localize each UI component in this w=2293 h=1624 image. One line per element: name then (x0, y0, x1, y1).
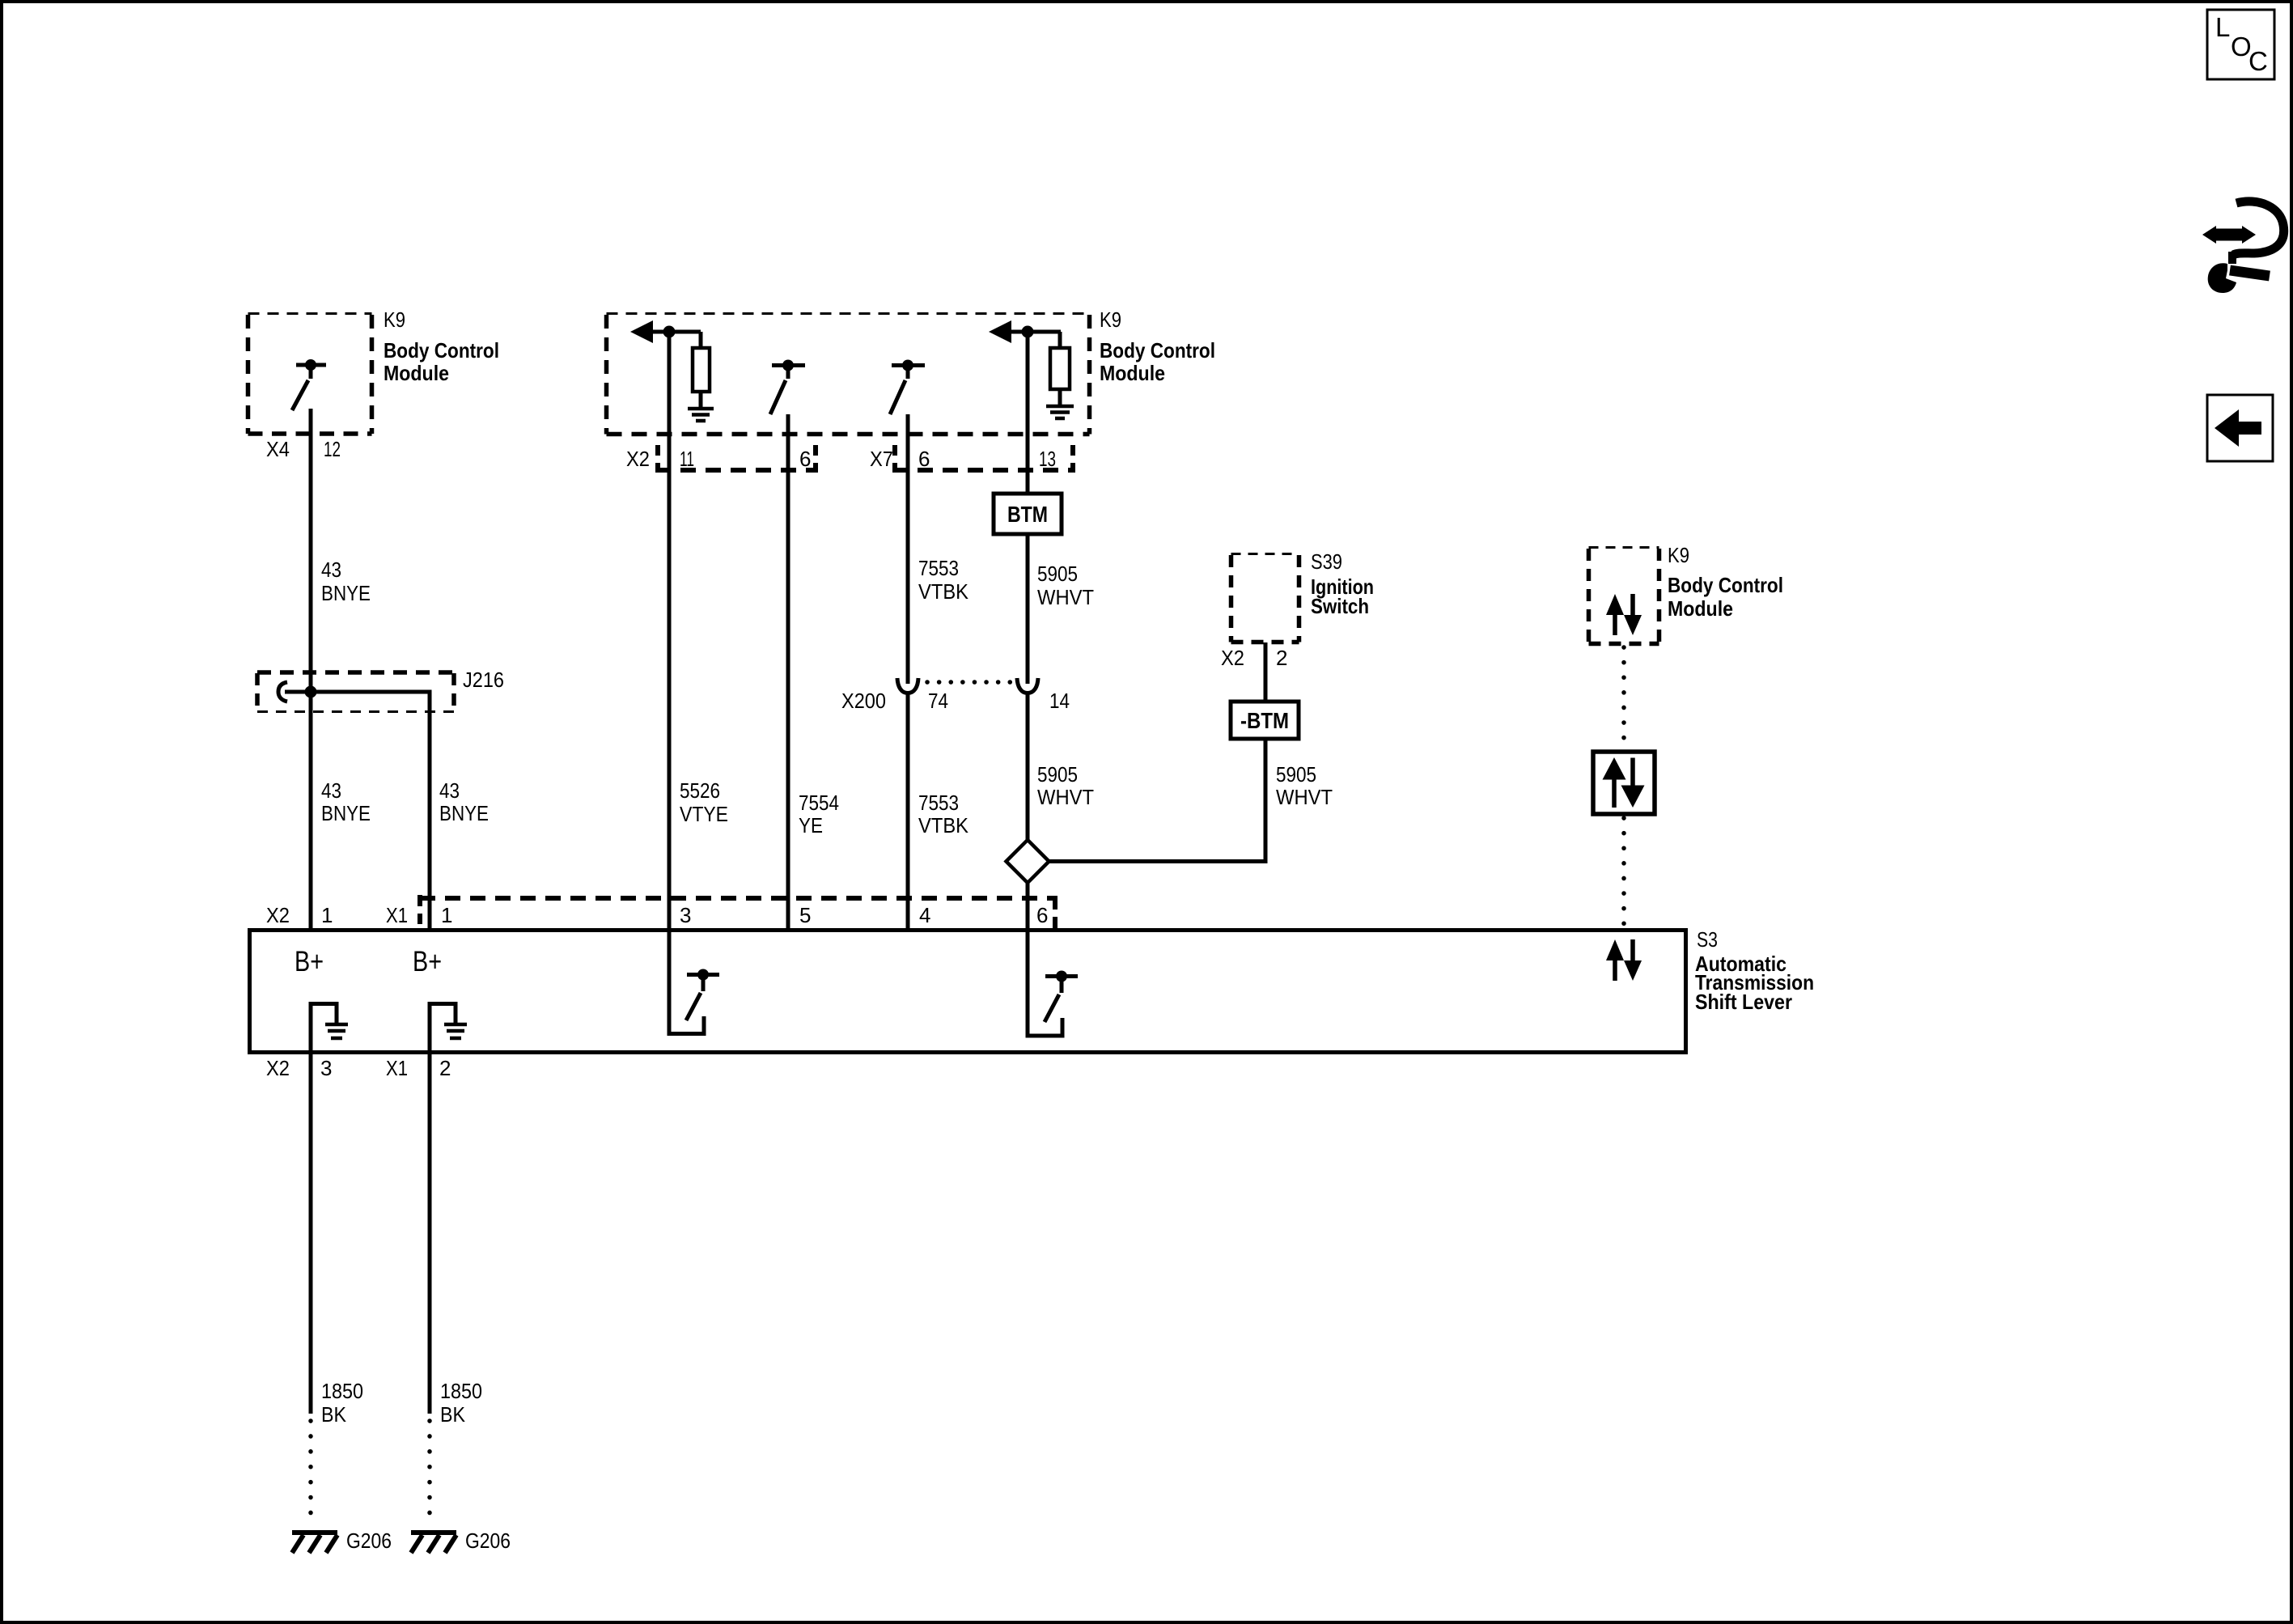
svg-text:2: 2 (1276, 646, 1287, 670)
svg-text:Shift Lever: Shift Lever (1695, 990, 1792, 1014)
svg-text:12: 12 (324, 437, 341, 461)
svg-text:5526: 5526 (680, 778, 720, 803)
svg-text:BTM: BTM (1007, 502, 1048, 527)
svg-text:X2: X2 (626, 447, 650, 471)
label J216 (463, 668, 504, 692)
svg-text:G206: G206 (465, 1529, 511, 1553)
svg-text:43: 43 (321, 778, 341, 803)
pin labels X2 2 (S39) (1221, 646, 1287, 670)
svg-text:X2: X2 (1221, 646, 1244, 670)
svg-text:K9: K9 (1100, 307, 1121, 332)
S3 bottom pin labels (266, 1056, 451, 1080)
label K9 Body Control Module (right) (1668, 543, 1783, 621)
ground (inside BCM, left) (688, 409, 714, 421)
svg-text:1850: 1850 (440, 1379, 482, 1403)
svg-text:S3: S3 (1697, 927, 1718, 952)
wire 5905 WHVT (pin 13 to BTM) (1026, 337, 1030, 494)
label 7553 VTBK (lower) (918, 791, 969, 837)
label 5905 WHVT (ignition branch) (1276, 762, 1333, 809)
junction dot pin 13 (1022, 326, 1034, 338)
back arrow icon (2207, 395, 2273, 461)
wire 7554 YE (pin 6 to S3 pin 5) (786, 414, 790, 931)
wire 5526 VTYE (pin 11 to S3 pin 3) (668, 337, 672, 931)
ground G206 (left) (292, 1533, 337, 1553)
switch inside S3 (pin 3) (669, 932, 719, 1034)
label 43 BNYE (upper) (321, 558, 371, 605)
label G206 (left) (346, 1529, 392, 1553)
label S39 Ignition Switch (1311, 549, 1374, 618)
svg-text:WHVT: WHVT (1037, 785, 1094, 809)
label G206 (right) (465, 1529, 511, 1553)
connector X200 dotted line (927, 680, 1014, 685)
connector X200 cup (pin 74) (897, 678, 918, 693)
svg-text:5905: 5905 (1276, 762, 1316, 787)
arrow out left (pin 13 net) (989, 320, 1061, 343)
wire 5905 WHVT (-BTM to splice diamond) (1049, 739, 1265, 862)
svg-text:X2: X2 (266, 903, 290, 927)
label 5526 VTYE (680, 778, 728, 826)
module K9 Body Control Module (right) dashed box (1589, 548, 1659, 644)
label X200 (841, 689, 886, 713)
svg-text:X4: X4 (266, 437, 290, 461)
svg-text:6: 6 (918, 447, 930, 471)
svg-text:B+: B+ (413, 946, 442, 977)
svg-text:YE: YE (799, 813, 823, 837)
wire 5905 WHVT (X200 to splice) (1026, 693, 1030, 841)
svg-text:S39: S39 (1311, 549, 1342, 574)
S3 connector X1 dashed outline (420, 895, 1057, 928)
-BTM box (1231, 702, 1299, 739)
wire splice to S3 pin 6 (1026, 883, 1030, 931)
label 1850 BK (left) (321, 1379, 363, 1427)
svg-text:X7: X7 (870, 447, 893, 471)
S3 Automatic Transmission Shift Lever box (250, 931, 1686, 1053)
label 43 BNYE (X2 branch) (321, 778, 371, 825)
connector X7 pin labels (870, 447, 1056, 471)
label B+ (X1-1) (413, 946, 442, 977)
resistor (right, inside BCM) (1050, 332, 1070, 405)
label 74 (928, 689, 948, 713)
svg-text:3: 3 (320, 1056, 332, 1080)
svg-text:-BTM: -BTM (1240, 708, 1289, 733)
svg-text:B+: B+ (295, 946, 324, 977)
svg-text:Module: Module (1668, 596, 1733, 621)
junction dot pin 11 (663, 326, 676, 338)
svg-text:VTBK: VTBK (918, 579, 969, 604)
svg-text:C: C (2248, 46, 2268, 76)
wire 7553 VTBK (pin X7-6 to S3 pin 4) (906, 414, 910, 931)
BTM box (994, 494, 1062, 534)
svg-text:WHVT: WHVT (1037, 585, 1094, 609)
svg-text:1850: 1850 (321, 1379, 363, 1403)
svg-text:43: 43 (321, 558, 341, 582)
switch inside left K9 (292, 359, 326, 410)
wire 43 BNYE (K9 X4-12 down to S3 X2-1) (309, 409, 313, 931)
svg-text:Module: Module (384, 361, 449, 385)
ground (inside BCM, right) (1046, 406, 1074, 418)
svg-text:BK: BK (440, 1402, 466, 1427)
ground hook inside S3 (X2-3) (311, 1004, 348, 1051)
svg-text:VTYE: VTYE (680, 802, 728, 826)
svg-text:BNYE: BNYE (439, 801, 489, 825)
svg-text:7553: 7553 (918, 556, 959, 580)
svg-text:7553: 7553 (918, 791, 959, 815)
up-down arrows inside S3 (1606, 939, 1642, 981)
svg-text:BK: BK (321, 1402, 347, 1427)
switch inside BCM (pin X7-6) (890, 360, 925, 415)
svg-text:1: 1 (321, 903, 333, 927)
svg-text:VTBK: VTBK (918, 813, 969, 837)
pin labels X4 12 (266, 437, 341, 461)
switch inside S3 (pin 6) (1028, 932, 1078, 1036)
module K9 Body Control Module (center) dashed box (607, 314, 1090, 435)
svg-text:X200: X200 (841, 689, 886, 713)
ground G206 (right) (411, 1533, 456, 1553)
label B+ (X2-1) (295, 946, 324, 977)
svg-text:4: 4 (919, 903, 930, 927)
svg-text:Body Control: Body Control (1100, 338, 1215, 363)
svg-text:Switch: Switch (1311, 594, 1369, 618)
label 7553 VTBK (upper) (918, 556, 969, 604)
svg-text:5905: 5905 (1037, 562, 1078, 586)
svg-text:G206: G206 (346, 1529, 392, 1553)
svg-text:7554: 7554 (799, 791, 839, 815)
svg-text:K9: K9 (384, 307, 405, 332)
svg-text:2: 2 (439, 1056, 451, 1080)
connector X2 dashed outline (655, 445, 818, 470)
label 5905 WHVT (lower) (1037, 762, 1094, 809)
label 43 BNYE (X1 branch) (439, 778, 489, 825)
connector X2 pin labels (626, 447, 811, 471)
resistor (left, inside BCM) (693, 332, 710, 407)
svg-text:Body Control: Body Control (384, 338, 499, 363)
svg-text:WHVT: WHVT (1276, 785, 1333, 809)
svg-text:BNYE: BNYE (321, 581, 371, 605)
wire 5905 WHVT (BTM to X200 pin 14) (1026, 534, 1030, 684)
LOC legend box (2207, 10, 2274, 79)
svg-text:Body Control: Body Control (1668, 573, 1783, 597)
splice J216 dashed box (257, 672, 454, 712)
arrow out left (pin 11 net) (630, 320, 701, 343)
wire 1850 BK (X2-3 to G206) (309, 1054, 313, 1528)
connector X200 cup (pin 14) (1017, 678, 1038, 693)
svg-text:X2: X2 (266, 1056, 290, 1080)
diagnostic wrench-arrow icon (2202, 201, 2284, 293)
wire S39 X2-2 to -BTM (1264, 642, 1268, 702)
svg-text:43: 43 (439, 778, 460, 803)
dotted data wire (right K9 to arrows box) (1621, 647, 1626, 752)
svg-text:74: 74 (928, 689, 948, 713)
svg-text:Module: Module (1100, 361, 1165, 385)
svg-text:X1: X1 (386, 903, 408, 927)
svg-text:6: 6 (1036, 903, 1048, 927)
switch S39 Ignition Switch dashed box (1231, 554, 1299, 642)
label 5905 WHVT (upper) (1037, 562, 1094, 609)
wire 1850 BK (X1-2 to G206) (428, 1054, 432, 1528)
label 7554 YE (799, 791, 839, 837)
svg-text:BNYE: BNYE (321, 801, 371, 825)
splice hook symbol (278, 682, 287, 702)
splice diamond (1007, 840, 1049, 883)
svg-text:6: 6 (799, 447, 811, 471)
label 1850 BK (right) (440, 1379, 482, 1427)
svg-text:1: 1 (441, 903, 452, 927)
svg-text:11: 11 (680, 447, 694, 471)
S3 top pin labels (266, 903, 1048, 927)
ground hook inside S3 (X1-2) (430, 1004, 467, 1051)
connector X7 dashed outline (892, 445, 1075, 470)
label 14 (1049, 689, 1070, 713)
switch inside BCM (pin 6) (770, 360, 805, 415)
svg-text:L: L (2215, 12, 2230, 42)
wire J216 branch to S3 X1-1 (285, 692, 430, 931)
svg-text:13: 13 (1039, 447, 1056, 471)
svg-text:K9: K9 (1668, 543, 1689, 567)
svg-text:14: 14 (1049, 689, 1070, 713)
svg-text:5: 5 (799, 903, 811, 927)
junction dot J216 (305, 686, 317, 698)
module K9 Body Control Module (top left) dashed box (248, 314, 372, 435)
svg-text:5905: 5905 (1037, 762, 1078, 787)
svg-text:J216: J216 (463, 668, 504, 692)
up-down arrows inside right K9 (1606, 594, 1642, 635)
label K9 Body Control Module (left) (384, 307, 499, 385)
up-down arrows small box (1593, 752, 1655, 814)
svg-text:3: 3 (680, 903, 691, 927)
label S3 Automatic Transmission Shift Lever (1695, 927, 1814, 1014)
dotted data wire (arrows box to S3) (1621, 818, 1626, 928)
label K9 Body Control Module (center) (1100, 307, 1215, 385)
svg-text:X1: X1 (386, 1056, 408, 1080)
